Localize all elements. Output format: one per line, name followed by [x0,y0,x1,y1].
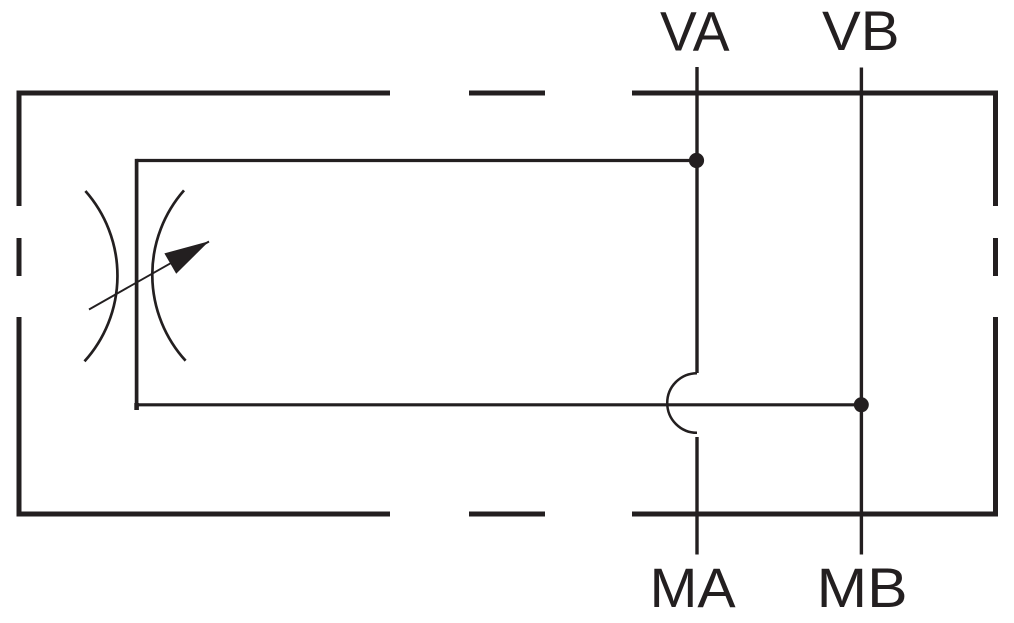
enclosure dashed border, top edge [17,91,999,96]
svg-text:VB: VB [822,0,900,62]
svg-text:MA: MA [650,556,737,619]
enclosure dashed border, bottom edge [17,512,999,517]
stub at loop bottom-left corner [134,403,139,410]
throttle valve R1, right arc [152,190,185,360]
wire: bottom of bypass loop [137,403,861,406]
throttle valve R1, left arc [85,191,118,361]
enclosure dashed border, right edge [993,91,998,517]
adjustment arrow head [164,241,209,273]
junction dot on VA line [689,153,704,168]
wire: top of bypass loop [137,159,697,162]
enclosure dashed border, left edge [17,91,22,517]
adjustment arrow shaft [89,242,209,310]
svg-text:MB: MB [817,556,908,619]
svg-text:VA: VA [660,0,730,63]
junction dot on VB line [854,397,869,412]
port line VB-MB (vertical) [860,68,863,555]
crossover hop on VA-MA line over bottom wire [667,373,697,433]
wire: left vertical of bypass loop [135,159,139,407]
port line VA-MA (vertical, interrupted by crossover hop) [695,67,698,555]
